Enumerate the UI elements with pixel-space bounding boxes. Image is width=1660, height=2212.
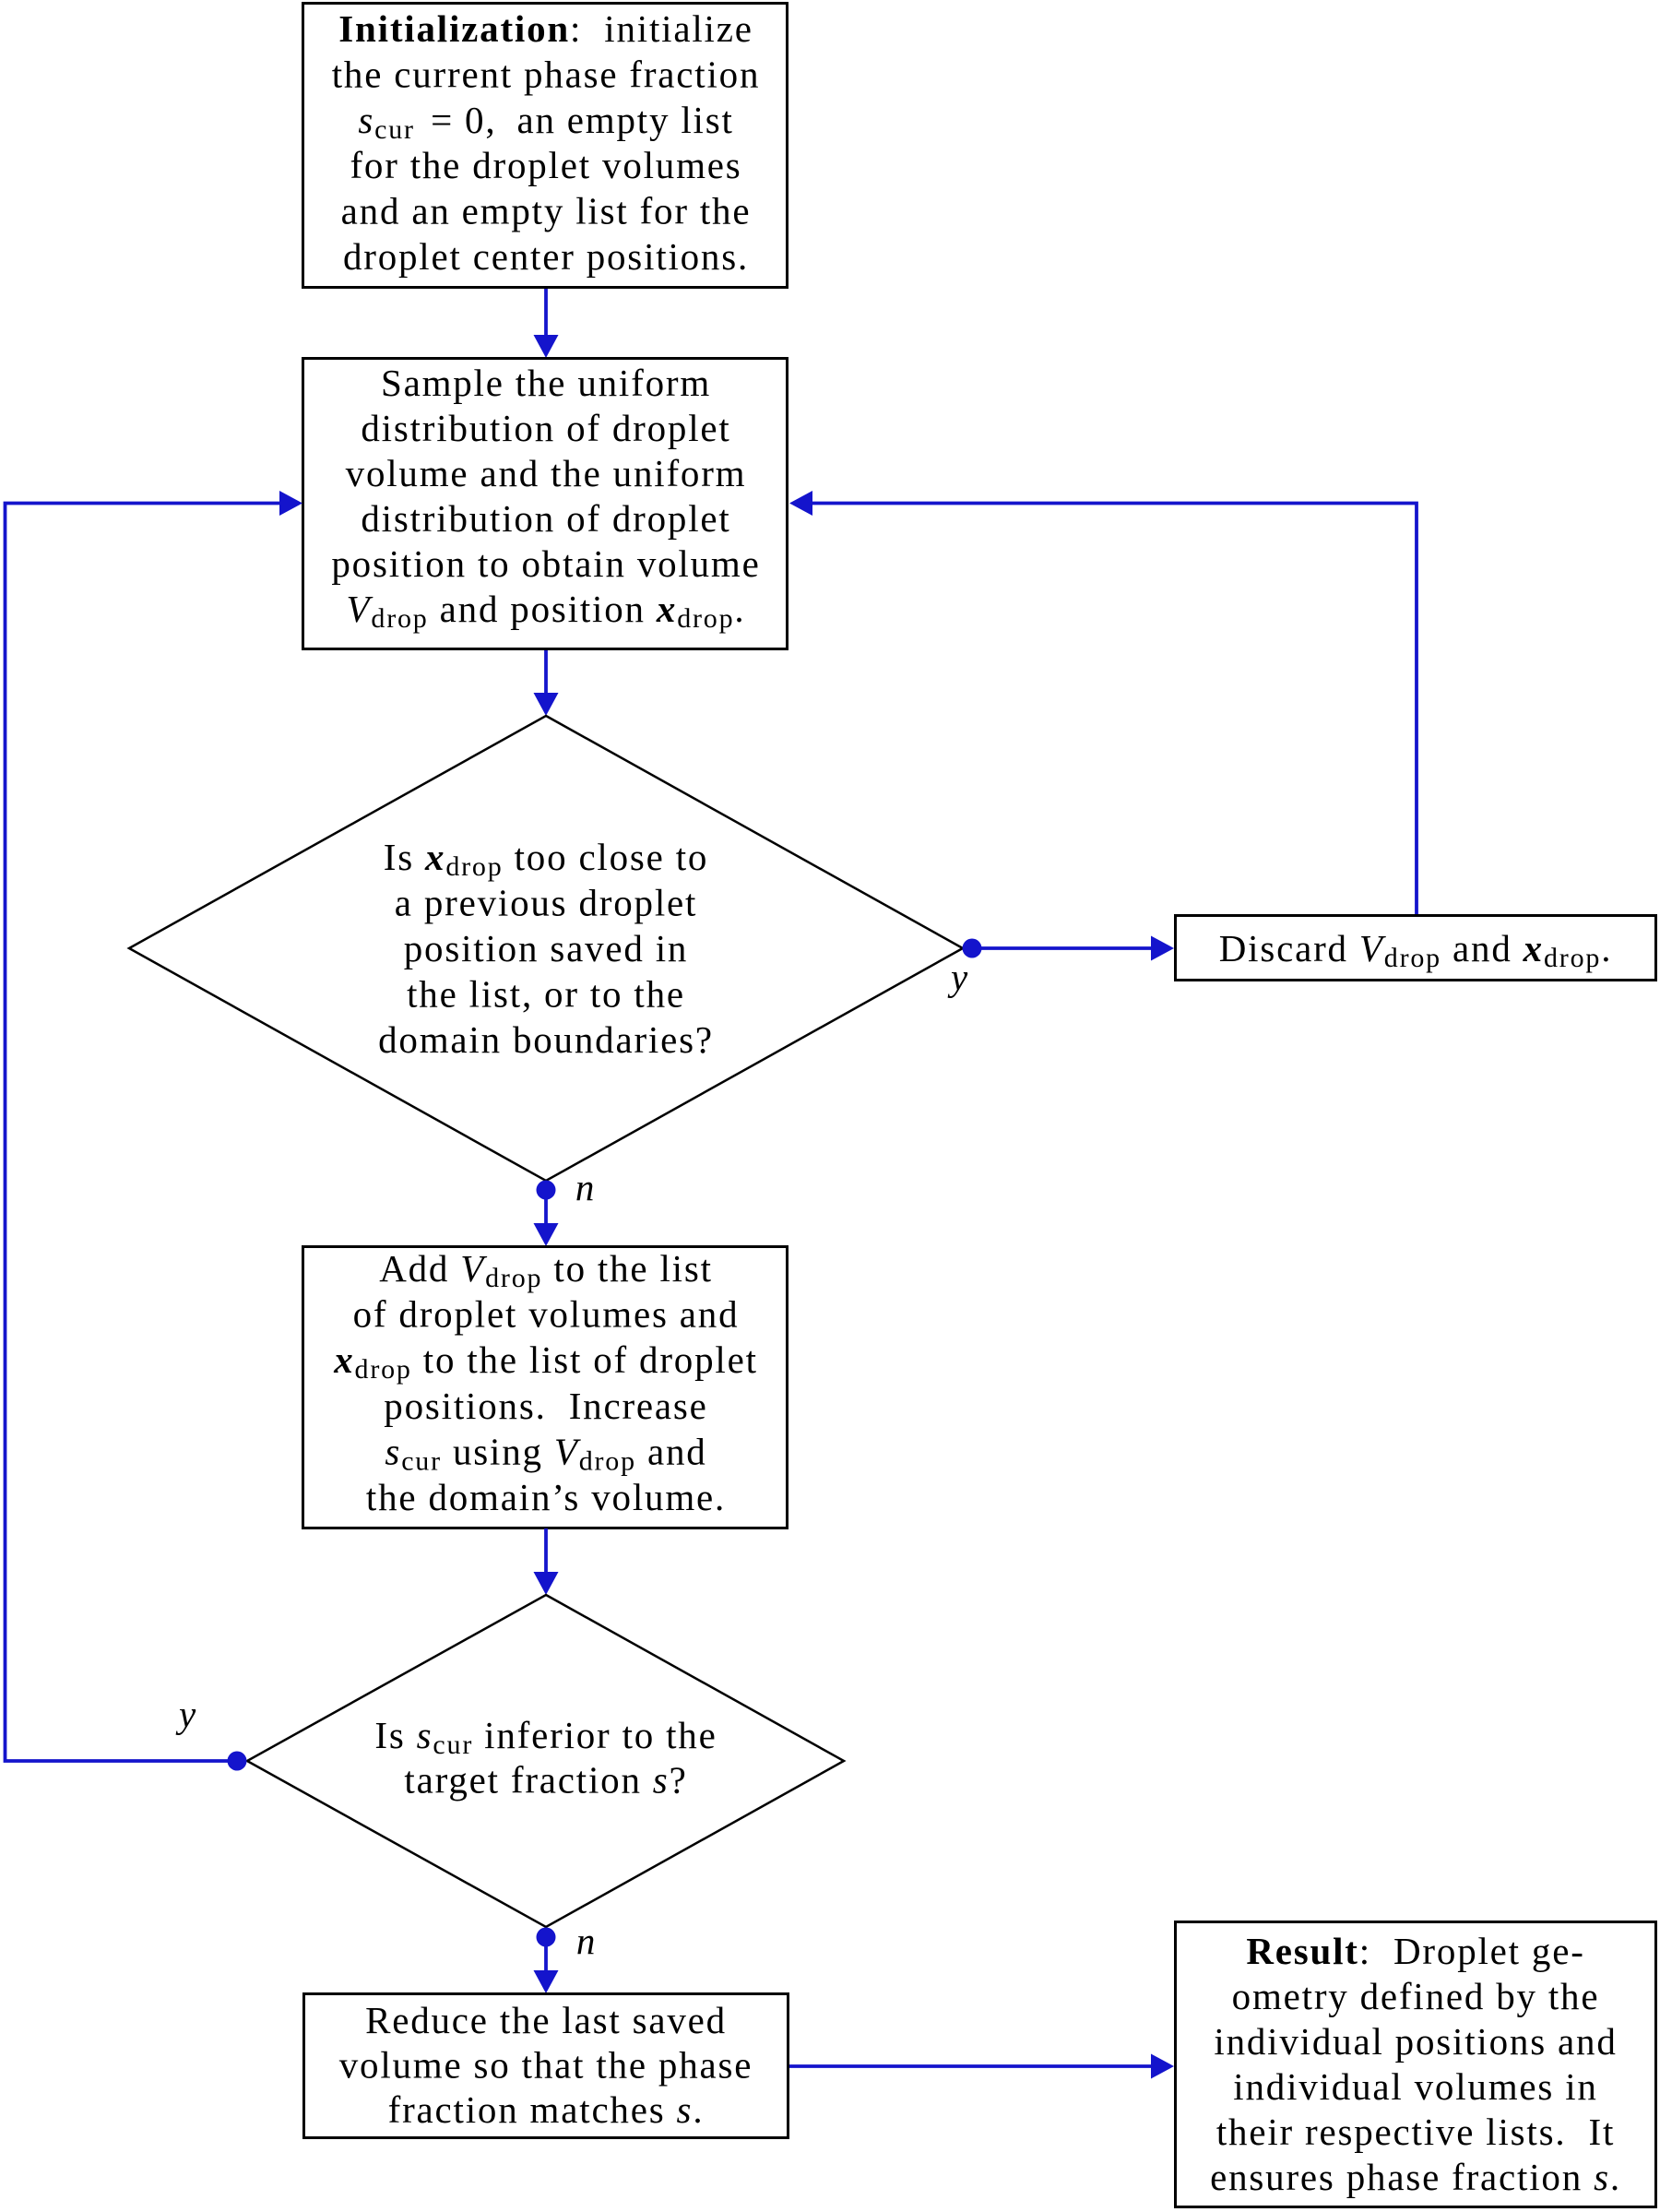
svg-text:domain boundaries?: domain boundaries? [378,1018,714,1061]
svg-text:Reduce the last saved: Reduce the last saved [365,1999,727,2041]
box Add [303,1247,788,1528]
svg-text:Add Vdrop to the list: Add Vdrop to the list [379,1247,713,1293]
wire Discard box up and left back to Sample (right loop) [789,491,1417,914]
svg-text:of droplet volumes and: of droplet volumes and [353,1293,740,1336]
svg-text:their respective lists. It: their respective lists. It [1216,2111,1615,2153]
svg-text:target fraction s?: target fraction s? [404,1759,687,1802]
svg-text:the domain’s volume.: the domain’s volume. [366,1476,726,1518]
svg-text:individual volumes in: individual volumes in [1233,2065,1597,2108]
decision diamond 2: is fraction below target [247,1595,844,1927]
svg-text:volume so that the phase: volume so that the phase [339,2044,753,2087]
arrow Sample to decision 1 [534,650,559,716]
box Initialization [303,4,788,288]
arrow Initialization to Sample [534,289,559,358]
wire Reduce to Result box with arrowhead [789,2054,1174,2079]
svg-text:volume and the uniform: volume and the uniform [346,452,747,494]
svg-text:the current phase fraction: the current phase fraction [332,53,761,95]
svg-text:positions. Increase: positions. Increase [384,1385,707,1427]
svg-text:Is xdrop too close to: Is xdrop too close to [384,836,708,882]
svg-text:Initialization: initialize: Initialization: initialize [338,7,753,50]
svg-text:y: y [947,956,969,998]
svg-text:n: n [575,1166,596,1208]
svg-text:for the droplet volumes: for the droplet volumes [350,144,741,186]
svg-text:y: y [175,1693,197,1735]
svg-text:ometry defined by the: ometry defined by the [1232,1975,1600,2017]
junction dot at diamond 2 left vertex [228,1752,247,1771]
svg-text:Result: Droplet ge-: Result: Droplet ge- [1246,1930,1584,1972]
svg-text:scur = 0, an empty list: scur = 0, an empty list [358,99,733,145]
svg-text:a previous droplet: a previous droplet [395,882,697,924]
junction dot at diamond 2 bottom vertex [537,1928,556,1947]
svg-text:Sample the uniform: Sample the uniform [381,362,711,404]
decision diamond 1: is position too close [129,716,963,1181]
box Discard [1176,916,1656,981]
arrow diamond 1 to Add box [534,1190,559,1246]
svg-text:the list, or to the: the list, or to the [407,973,685,1016]
svg-text:distribution of droplet: distribution of droplet [361,407,730,449]
wire diamond 1 to Discard box with arrowhead [972,936,1174,961]
svg-text:Is scur inferior to the: Is scur inferior to the [374,1714,717,1760]
junction dot at diamond 1 bottom vertex [537,1181,556,1200]
svg-text:distribution of droplet: distribution of droplet [361,497,730,540]
box Reduce [304,1994,788,2138]
box Result [1176,1922,1656,2207]
box Sample [303,359,788,649]
svg-text:fraction matches s.: fraction matches s. [388,2088,705,2131]
svg-text:n: n [576,1920,597,1962]
arrow Add to decision 2 [534,1528,559,1595]
svg-text:and an empty list for the: and an empty list for the [341,190,752,232]
svg-text:position to obtain volume: position to obtain volume [331,542,760,585]
arrow diamond 2 to Reduce box [534,1937,559,1993]
svg-text:droplet center positions.: droplet center positions. [343,235,749,278]
junction dot at diamond 1 right vertex [963,939,982,958]
svg-text:ensures phase fraction s.: ensures phase fraction s. [1210,2156,1621,2198]
wire diamond 2 left and up back to Sample (left loop) [6,491,303,1761]
svg-text:individual positions and: individual positions and [1214,2020,1617,2063]
svg-text:position saved in: position saved in [404,927,688,969]
